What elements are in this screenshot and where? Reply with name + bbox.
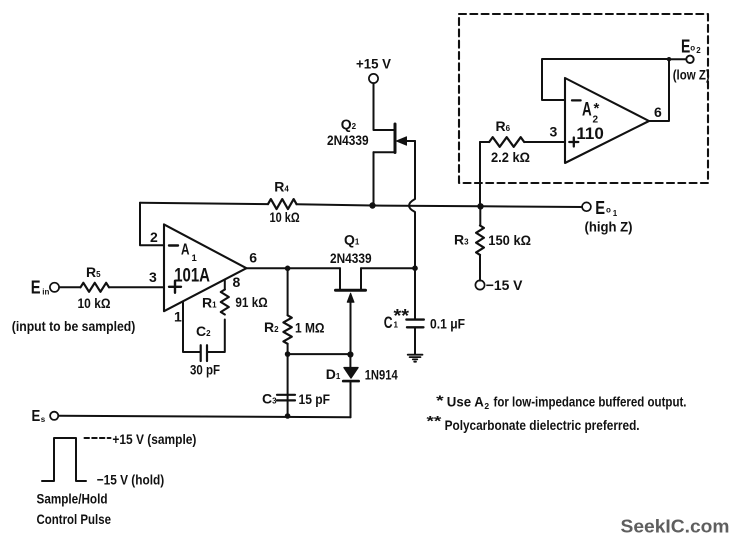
svg-text:−15 V: −15 V [486, 277, 523, 293]
svg-text:for low-impedance buffered out: for low-impedance buffered output. [494, 394, 687, 410]
svg-text:−15 V (hold): −15 V (hold) [97, 472, 165, 488]
svg-text:10 kΩ: 10 kΩ [78, 295, 111, 311]
svg-text:E: E [595, 198, 605, 218]
svg-text:A: A [181, 242, 190, 259]
svg-text:E: E [31, 278, 41, 298]
svg-text:(input to be sampled): (input to be sampled) [12, 318, 136, 334]
svg-text:101A: 101A [174, 265, 210, 286]
svg-text:Sample/Hold: Sample/Hold [37, 491, 108, 507]
svg-text:2N4339: 2N4339 [327, 132, 369, 148]
svg-text:91 kΩ: 91 kΩ [235, 294, 267, 310]
svg-text:2N4339: 2N4339 [330, 250, 372, 266]
svg-text:6: 6 [654, 104, 662, 120]
svg-text:+15 V: +15 V [356, 56, 392, 72]
svg-text:15 pF: 15 pF [299, 391, 331, 407]
svg-text:s: s [41, 415, 46, 424]
svg-text:2: 2 [150, 229, 158, 245]
svg-text:E: E [681, 37, 690, 57]
svg-text:6: 6 [249, 250, 257, 266]
svg-text:o: o [690, 44, 695, 53]
svg-text:**: ** [394, 306, 410, 326]
svg-text:3: 3 [149, 269, 157, 285]
svg-text:(low Z): (low Z) [673, 67, 710, 83]
svg-text:o: o [606, 206, 611, 215]
svg-text:150 kΩ: 150 kΩ [488, 232, 531, 248]
svg-text:1 MΩ: 1 MΩ [295, 320, 325, 336]
svg-text:(high Z): (high Z) [585, 219, 633, 235]
svg-text:in: in [42, 288, 49, 297]
svg-text:110: 110 [576, 124, 603, 143]
svg-text:30 pF: 30 pF [190, 362, 220, 378]
svg-text:2.2 kΩ: 2.2 kΩ [491, 149, 530, 165]
svg-text:Control Pulse: Control Pulse [37, 511, 112, 527]
svg-text:1N914: 1N914 [365, 367, 398, 383]
svg-text:10 kΩ: 10 kΩ [270, 209, 300, 225]
svg-text:1: 1 [613, 209, 618, 218]
svg-text:0.1 μF: 0.1 μF [430, 316, 465, 332]
svg-text:2: 2 [696, 46, 701, 55]
svg-text:**: ** [427, 413, 443, 429]
svg-text:1: 1 [192, 253, 198, 264]
svg-text:3: 3 [550, 124, 558, 140]
svg-text:Polycarbonate dielectric prefe: Polycarbonate dielectric preferred. [445, 417, 640, 433]
svg-text:+15 V (sample): +15 V (sample) [112, 431, 196, 447]
svg-text:2: 2 [484, 401, 489, 411]
svg-text:1: 1 [174, 309, 182, 325]
svg-text:A: A [582, 99, 592, 120]
svg-text:*: * [436, 392, 444, 408]
svg-text:C: C [384, 313, 393, 332]
svg-text:Use A: Use A [447, 394, 484, 410]
svg-text:E: E [32, 408, 41, 425]
svg-text:SeekIC.com: SeekIC.com [621, 517, 730, 537]
svg-text:8: 8 [233, 274, 241, 290]
